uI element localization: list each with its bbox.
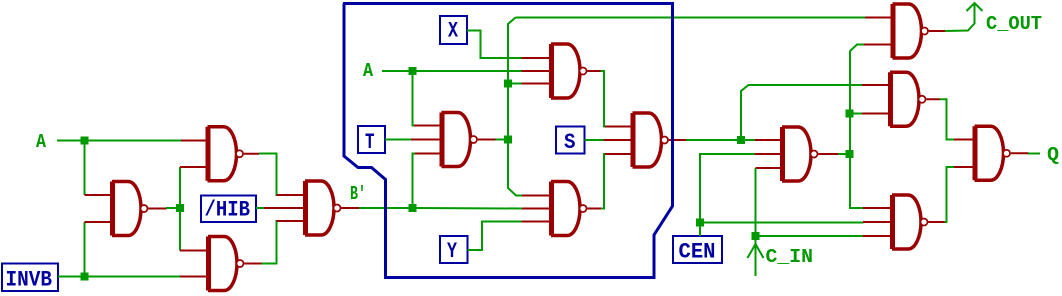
svg-text:X: X <box>448 19 459 44</box>
wire J6 up to J5 and top wire <box>508 18 516 136</box>
port label box INVB <box>2 264 58 293</box>
wire net Y to U7 pin3 <box>468 222 522 251</box>
junction J2 net INVB <box>81 273 89 281</box>
junction J5 S-bar row <box>504 80 512 88</box>
wire net /HIB to U4 pin2 <box>256 207 266 209</box>
wire U5 output down to U8 pin1 <box>601 71 608 127</box>
NAND gate U4 <box>264 181 359 235</box>
svg-text:B': B' <box>350 183 366 205</box>
NAND gate U7 <box>522 182 602 236</box>
wire U6 output to J6 <box>496 139 505 141</box>
junction J1 net A <box>81 137 89 145</box>
wire J7 up to U6 pin3 <box>413 154 416 205</box>
C_OUT output arrow head <box>967 3 983 11</box>
wire J5 to U5 pin3 <box>512 83 522 85</box>
wire net CEN up and to U11 pin2 <box>700 154 755 236</box>
port label box S <box>556 127 585 156</box>
wire vertical to U9 pin2 <box>850 45 865 151</box>
wire U12 output up to U13 pin2 <box>945 167 955 222</box>
wire top wire to U9 pin1 <box>516 17 866 19</box>
svg-text:INVB: INVB <box>6 268 53 293</box>
wire U2 output down to U4 pin1 <box>259 154 279 196</box>
wire U1 pin2 down to INVB row <box>84 222 86 277</box>
wire net T to U6 pin2 <box>385 139 412 141</box>
wire U3 output up to U4 pin3 <box>262 221 280 264</box>
NAND gate U6 <box>411 113 496 167</box>
wire U11 output to J9 <box>838 153 846 155</box>
svg-text:A: A <box>363 60 374 82</box>
NAND gate U12 <box>863 195 945 249</box>
wire net A from label <box>57 140 81 142</box>
wire J10 to U10 pin2 <box>854 113 863 115</box>
svg-text:CEN: CEN <box>679 240 716 265</box>
wire net A down to U1 pin1 <box>84 144 86 195</box>
NAND gate U13 <box>954 126 1029 180</box>
wire net INVB row <box>58 276 181 278</box>
svg-text:Q: Q <box>1047 144 1059 166</box>
wire U10 output down to U13 pin1 <box>940 99 955 139</box>
wire J3 up to U2 pin2 <box>179 167 181 208</box>
wire net CEN row to U12 pin2 <box>704 222 864 224</box>
junction J13 net C_IN <box>752 232 760 240</box>
wire net X to U5 pin1 <box>467 31 522 59</box>
svg-text:C_OUT: C_OUT <box>986 13 1042 35</box>
wire net C_IN vertical <box>755 168 757 276</box>
NAND gate U10 <box>862 72 940 126</box>
wire J3 down to U3 pin1 <box>179 208 181 251</box>
junction J11 carry net <box>737 136 745 144</box>
junction J6 U6 output <box>504 136 512 144</box>
NAND gate U3 <box>180 237 262 291</box>
junction J4 net A internal <box>409 67 417 75</box>
wire net A internal to U5 pin2 <box>417 70 522 72</box>
wire net A internal from label <box>382 70 409 72</box>
svg-text:S: S <box>564 130 576 155</box>
wire J4 down to U6 pin1 <box>413 75 416 126</box>
svg-text:C_IN: C_IN <box>766 246 814 268</box>
C_IN input arrow head <box>748 244 764 258</box>
wire net C_IN row to U12 pin3 <box>760 235 864 237</box>
wire J7 to U7 pin2 <box>417 207 523 210</box>
port label box Y <box>440 236 468 264</box>
junction J12 net CEN <box>696 219 704 227</box>
wire J11 up to U10 pin1 <box>741 85 863 136</box>
wire net B-prime: U4 output to J7 <box>359 207 409 209</box>
port label box CEN <box>673 236 722 265</box>
wire J6 down to U7 pin1 <box>508 144 522 196</box>
wire U9 output to C_OUT arrow <box>945 3 975 31</box>
wire U7 output up to U8 pin3 <box>601 154 607 209</box>
junction J3 U1 output <box>176 204 184 212</box>
NAND gate U1 <box>85 182 167 236</box>
NAND gate U8 <box>604 113 687 167</box>
port label box /HIB <box>201 196 256 223</box>
wire J11 to U11 pin1 <box>745 139 756 141</box>
svg-text:/HIB: /HIB <box>205 198 251 223</box>
wire U1 output to J3 <box>166 207 180 209</box>
junction J9 U11 output <box>846 150 854 158</box>
NAND gate U11 <box>755 127 839 181</box>
port label box T <box>358 126 385 155</box>
wire net A to U2 pin1 <box>88 140 181 142</box>
junction J7 net B-prime <box>409 204 417 212</box>
svg-text:Y: Y <box>447 239 458 264</box>
wire net S to U8 pin2 <box>585 139 607 141</box>
port label box X <box>440 16 467 44</box>
wire U13 output to Q <box>1028 153 1040 155</box>
NAND gate U5 <box>522 44 602 98</box>
function block outline <box>343 4 673 278</box>
NAND gate U2 <box>180 127 259 181</box>
wire J9 down to U12 pin1 <box>850 158 864 208</box>
junction J10 on vertical <box>846 110 854 118</box>
svg-text:T: T <box>365 130 375 155</box>
svg-text:A: A <box>36 131 47 153</box>
NAND gate U9 <box>864 4 946 58</box>
wire U8 output to J11 <box>686 139 737 141</box>
